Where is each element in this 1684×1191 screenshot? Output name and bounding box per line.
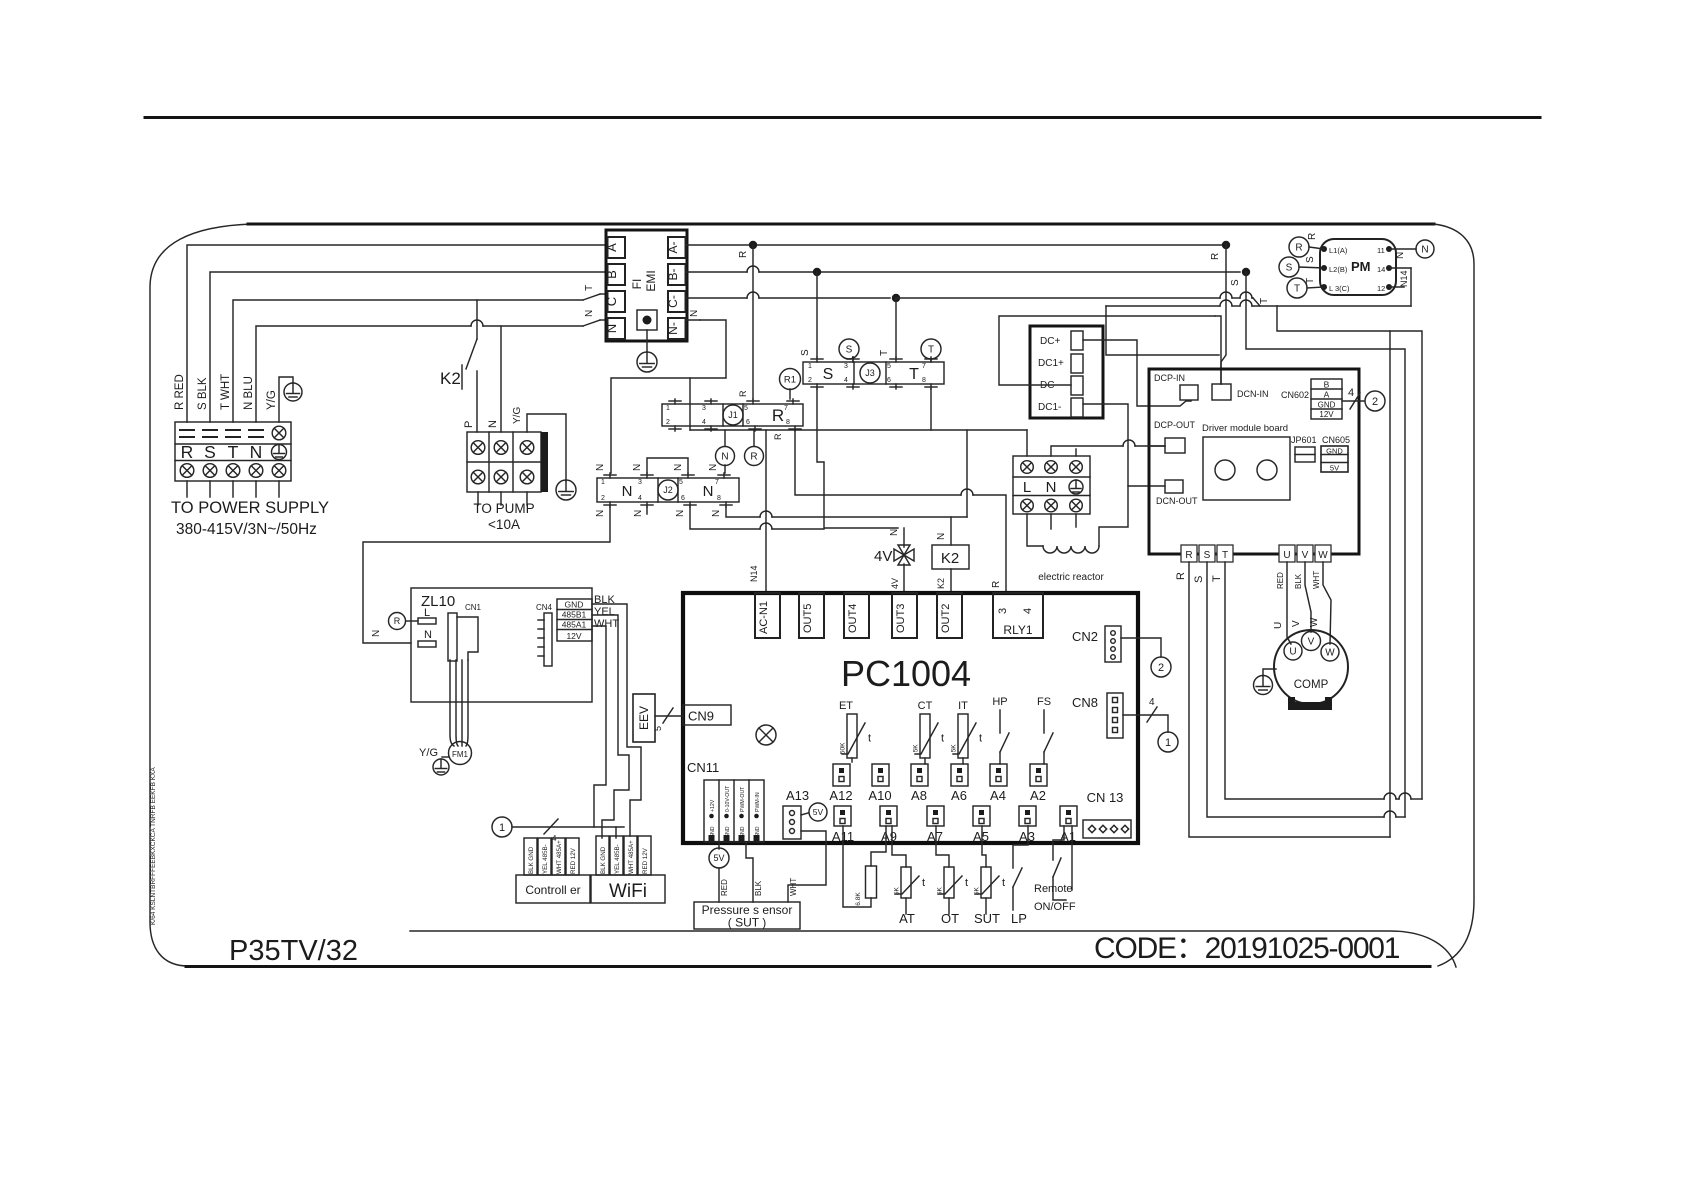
svg-text:2: 2	[1372, 396, 1378, 408]
svg-text:PM: PM	[1351, 259, 1371, 274]
wire S bus to ST pin1	[816, 272, 818, 357]
connector OUT5	[799, 593, 824, 638]
controller box	[516, 875, 590, 903]
svg-text:A7: A7	[927, 829, 943, 844]
svg-text:8: 8	[717, 495, 721, 502]
svg-text:T: T	[909, 366, 919, 383]
svg-text:GND: GND	[565, 600, 584, 610]
svg-text:Y/G: Y/G	[419, 747, 438, 759]
wire CN602 to node 2	[1342, 400, 1364, 402]
wire loop R from driver board	[1189, 562, 1390, 837]
connector A3	[1019, 806, 1036, 826]
svg-text:CN602: CN602	[1281, 390, 1309, 400]
svg-text:N: N	[604, 324, 619, 333]
svg-text:4: 4	[1348, 387, 1354, 399]
svg-text:BLK GND: BLK GND	[528, 846, 535, 874]
svg-text:K/64 KSLNTBRFFFEEBKXCKCA TNRFB: K/64 KSLNTBRFFFEEBKXCKCA TNRFB EEKFB KXA	[150, 767, 157, 925]
svg-text:1: 1	[808, 363, 812, 370]
svg-text:N: N	[711, 510, 722, 517]
svg-text:GND: GND	[1326, 447, 1343, 456]
svg-text:WHT: WHT	[1312, 571, 1321, 589]
svg-text:N: N	[708, 464, 719, 471]
connector A11	[834, 806, 851, 826]
svg-text:6: 6	[746, 419, 750, 426]
svg-text:N14: N14	[1399, 270, 1409, 287]
compressor COMP	[1274, 630, 1348, 704]
svg-text:R: R	[773, 433, 783, 440]
svg-text:1: 1	[601, 479, 605, 486]
wire loop T from driver board	[1225, 562, 1384, 799]
svg-text:S: S	[1286, 263, 1293, 274]
svg-text:A3: A3	[1019, 829, 1035, 844]
svg-text:<10A: <10A	[488, 517, 520, 532]
svg-text:WHT 485A+: WHT 485A+	[556, 840, 563, 874]
wire R vertical to DCN-IN	[1221, 245, 1226, 384]
svg-text:IT: IT	[958, 700, 968, 712]
svg-text:R: R	[738, 390, 748, 397]
wire PM 14 and 12 to N14 net	[1389, 267, 1411, 269]
wifi box	[591, 875, 665, 903]
bus wire S from EMI B-	[686, 271, 748, 273]
svg-text:CN605: CN605	[1322, 435, 1350, 445]
EMI ground terminal	[637, 310, 657, 330]
svg-text:A2: A2	[1030, 788, 1046, 803]
svg-text:FI: FI	[630, 279, 644, 290]
svg-text:EEV: EEV	[637, 706, 651, 730]
svg-text:OUT3: OUT3	[895, 604, 907, 633]
ground symbol pump	[527, 414, 566, 481]
node 5V below board	[718, 843, 720, 849]
relay block S T J3	[803, 362, 944, 384]
fan motor FM1	[449, 742, 472, 765]
wire DC+ to DCP-IN	[1083, 340, 1191, 406]
svg-text:S BLK: S BLK	[197, 377, 209, 410]
svg-text:P35TV/32: P35TV/32	[229, 935, 358, 967]
svg-text:N: N	[689, 310, 700, 317]
svg-text:CN1: CN1	[465, 603, 482, 612]
svg-text:HP: HP	[992, 696, 1007, 708]
node 2 circle right of CN2	[1151, 657, 1171, 677]
svg-text:CODE：20191025-0001: CODE：20191025-0001	[1094, 932, 1400, 965]
svg-text:L1(A): L1(A)	[1329, 246, 1348, 255]
svg-text:C-: C-	[666, 295, 680, 308]
svg-text:A5: A5	[973, 829, 989, 844]
fan motor ground	[442, 756, 449, 758]
compressor base	[1288, 697, 1332, 710]
svg-text:L 3(C): L 3(C)	[1329, 284, 1350, 293]
svg-text:K2: K2	[440, 369, 461, 388]
svg-text:PC1004: PC1004	[841, 653, 971, 694]
svg-text:A-: A-	[666, 241, 680, 253]
svg-text:DCN-IN: DCN-IN	[1237, 389, 1269, 399]
wire EMI N- to N relay pin1	[686, 319, 701, 321]
svg-text:N: N	[703, 483, 714, 500]
svg-text:14: 14	[1377, 265, 1385, 274]
svg-text:12V: 12V	[566, 631, 581, 641]
svg-text:AT: AT	[899, 911, 915, 926]
svg-text:T: T	[1294, 284, 1300, 295]
wire PM 11 to N node	[1389, 248, 1416, 250]
svg-text:WHT 485A+: WHT 485A+	[628, 840, 635, 874]
svg-text:5: 5	[679, 479, 683, 486]
svg-text:t: t	[922, 877, 925, 889]
svg-text:V: V	[1291, 620, 1302, 627]
terminal block L N	[1013, 456, 1090, 514]
svg-text:RLY1: RLY1	[1003, 623, 1032, 637]
expansion valve EEV	[633, 694, 655, 742]
svg-text:BLK GND: BLK GND	[600, 846, 607, 874]
svg-text:5K: 5K	[894, 887, 901, 896]
wire S vertical to right loop	[1246, 272, 1405, 817]
svg-text:R RED: R RED	[174, 374, 186, 410]
svg-text:V: V	[1308, 637, 1315, 648]
svg-text:7: 7	[922, 363, 926, 370]
svg-text:CN 13: CN 13	[1087, 790, 1124, 805]
svg-text:K2: K2	[941, 550, 959, 567]
wire T bus to ST pin5	[895, 298, 897, 357]
svg-text:RED: RED	[1276, 572, 1285, 589]
svg-text:t: t	[941, 732, 944, 744]
svg-text:3: 3	[638, 479, 642, 486]
svg-text:380-415V/3N~/50Hz: 380-415V/3N~/50Hz	[176, 521, 317, 538]
svg-text:JP601: JP601	[1291, 435, 1317, 445]
svg-text:2: 2	[601, 495, 605, 502]
hop of N wire under K2 wire	[471, 320, 483, 326]
wire BLK to pressure sensor	[746, 843, 753, 902]
svg-text:N: N	[584, 310, 595, 317]
svg-text:J3: J3	[865, 368, 875, 378]
wire LN block N top to DCP-OUT	[1051, 446, 1123, 456]
compressor ground	[1263, 669, 1276, 676]
svg-text:2: 2	[1158, 662, 1164, 674]
node S circle above ST pin3	[852, 357, 854, 359]
svg-text:PWM-OUT: PWM-OUT	[740, 786, 746, 812]
connector CN9	[683, 705, 731, 725]
svg-text:N: N	[936, 533, 947, 540]
controller interface pins	[524, 838, 579, 875]
svg-text:P: P	[463, 421, 475, 428]
svg-text:S: S	[1305, 256, 1316, 263]
svg-text:electric reactor: electric reactor	[1038, 572, 1104, 583]
svg-text:( SUT ): ( SUT )	[728, 916, 766, 930]
svg-text:TO POWER SUPPLY: TO POWER SUPPLY	[171, 499, 329, 517]
svg-text:5: 5	[887, 363, 891, 370]
main board PC1004 outline	[683, 593, 1138, 843]
svg-text:J2: J2	[663, 485, 673, 495]
svg-text:CN8: CN8	[1072, 695, 1098, 710]
svg-text:CT: CT	[918, 700, 933, 712]
wire mid bus to PM and right loop	[1106, 305, 1220, 307]
svg-text:Remote: Remote	[1034, 883, 1073, 895]
relay connector RLY1	[993, 593, 1043, 638]
svg-text:12V: 12V	[1319, 410, 1334, 419]
svg-text:R: R	[181, 442, 194, 462]
svg-text:N: N	[595, 464, 606, 471]
svg-text:AC-N1: AC-N1	[758, 601, 770, 634]
connector OUT3	[892, 593, 917, 638]
power module PM	[1320, 239, 1396, 295]
svg-text:PWM-IN: PWM-IN	[755, 792, 761, 812]
svg-text:6.8K: 6.8K	[855, 892, 862, 906]
svg-text:485A1: 485A1	[562, 620, 587, 630]
svg-text:WHT: WHT	[789, 878, 798, 896]
connector A2	[1030, 764, 1047, 786]
svg-text:U: U	[1283, 550, 1290, 561]
svg-text:2: 2	[666, 419, 670, 426]
svg-text:A: A	[1324, 390, 1330, 400]
svg-text:A9: A9	[881, 829, 897, 844]
svg-text:N: N	[889, 529, 900, 536]
connector A1	[1060, 806, 1077, 826]
svg-text:S: S	[1230, 279, 1241, 286]
svg-text:T: T	[1305, 278, 1316, 284]
bus wire R from EMI A-	[686, 244, 1227, 246]
svg-text:A1: A1	[1060, 829, 1076, 844]
svg-text:T: T	[1259, 298, 1270, 304]
switch K2 to pump	[476, 300, 478, 339]
node 1 circle comm bus	[492, 817, 512, 837]
svg-text:5K: 5K	[974, 887, 981, 896]
svg-text:7: 7	[715, 479, 719, 486]
svg-text:5K: 5K	[951, 744, 958, 753]
svg-text:DCP-IN: DCP-IN	[1154, 373, 1185, 383]
wire T power to EMI C	[233, 300, 583, 422]
node 2 circle	[1365, 391, 1385, 411]
svg-text:t: t	[965, 877, 968, 889]
wire S power to EMI B	[210, 272, 606, 422]
svg-text:YEL 485B-: YEL 485B-	[614, 844, 621, 874]
wire A13 to pressure sensor WHT	[788, 831, 826, 902]
wire N power to EMI N	[256, 326, 471, 422]
svg-text:N: N	[250, 442, 263, 462]
svg-text:A12: A12	[829, 788, 852, 803]
svg-text:T: T	[1211, 575, 1223, 582]
svg-text:N: N	[371, 630, 382, 637]
svg-text:4: 4	[1022, 608, 1034, 614]
wire L N block L top	[1026, 430, 1028, 456]
svg-text:B-: B-	[666, 268, 680, 280]
driver module board outline	[1149, 369, 1359, 554]
connector A6	[951, 764, 968, 786]
comm wire WHT staircase	[592, 626, 606, 827]
svg-text:1: 1	[666, 405, 670, 412]
svg-text:OUT2: OUT2	[940, 604, 952, 633]
page top rule	[145, 116, 1540, 119]
ground symbol PE near power block	[279, 377, 293, 422]
svg-text:N: N	[673, 464, 684, 471]
svg-text:5K: 5K	[913, 744, 920, 753]
svg-text:EMI: EMI	[644, 270, 658, 291]
svg-text:485B1: 485B1	[562, 610, 587, 620]
node R circle to PM L1	[1289, 237, 1309, 257]
wire loop vertical right inner	[1389, 331, 1391, 837]
svg-text:BLK: BLK	[1294, 573, 1303, 589]
wire loop S from driver board	[1207, 562, 1384, 817]
svg-text:3: 3	[702, 405, 706, 412]
svg-text:11: 11	[1377, 246, 1385, 255]
svg-text:W: W	[1318, 550, 1328, 561]
svg-text:8: 8	[786, 419, 790, 426]
wire DC- to DCN-IN	[999, 316, 1106, 385]
wire EEV to CN9 with 5 marker	[655, 715, 683, 717]
wire R bus to relay R pin5	[752, 245, 754, 399]
node N circle above N relay pin7	[724, 430, 726, 446]
connector A7	[927, 806, 944, 826]
svg-text:ON/OFF: ON/OFF	[1034, 901, 1076, 913]
relay block N J2	[597, 478, 739, 502]
node R below relay R pin6	[753, 431, 755, 446]
svg-text:N: N	[1421, 245, 1428, 256]
svg-text:R: R	[1185, 550, 1192, 561]
wire N relay pin2 to ZL10	[363, 507, 610, 643]
svg-text:OUT5: OUT5	[802, 604, 814, 633]
svg-text:A10: A10	[868, 788, 891, 803]
connector DCN-IN	[1212, 384, 1231, 400]
svg-text:1: 1	[499, 822, 505, 834]
svg-text:RED 12V: RED 12V	[570, 847, 577, 874]
svg-text:N: N	[675, 510, 686, 517]
wire DC1- to DCN-OUT	[1083, 404, 1165, 486]
svg-text:N: N	[595, 510, 606, 517]
svg-text:S: S	[1193, 576, 1205, 583]
svg-text:7: 7	[784, 405, 788, 412]
board ZL10 outline	[411, 588, 592, 702]
svg-text:R: R	[1210, 253, 1221, 260]
connector OUT4	[844, 593, 869, 638]
svg-text:CN11: CN11	[687, 760, 719, 775]
relay block R J1	[662, 404, 803, 426]
svg-text:L: L	[1023, 479, 1031, 496]
comm wire YEL staircase	[592, 615, 629, 838]
driver board terminals R S T	[1181, 545, 1197, 562]
svg-text:0-10V-OUT: 0-10V-OUT	[725, 785, 731, 812]
svg-text:A13: A13	[786, 788, 809, 803]
connector A5	[973, 806, 990, 826]
svg-text:T: T	[1222, 550, 1228, 561]
svg-text:YEL: YEL	[594, 606, 615, 618]
resistor 6.8K	[843, 826, 871, 907]
svg-text:R: R	[772, 406, 784, 425]
connector A12	[833, 764, 850, 786]
svg-text:N BLU: N BLU	[243, 376, 255, 410]
svg-text:S: S	[800, 349, 811, 356]
svg-text:A: A	[604, 243, 619, 252]
svg-text:A8: A8	[911, 788, 927, 803]
svg-text:OT: OT	[941, 911, 959, 926]
svg-text:T: T	[584, 285, 595, 291]
svg-text:6: 6	[681, 495, 685, 502]
relay coil K2	[932, 545, 969, 569]
svg-text:CN2: CN2	[1072, 629, 1098, 644]
wire ST pin8 to N rail	[930, 389, 932, 430]
svg-text:W: W	[1325, 648, 1335, 659]
svg-text:5V: 5V	[713, 853, 724, 863]
svg-text:L: L	[424, 607, 430, 619]
node 5V at A13	[801, 813, 808, 815]
comm wire BLK staircase	[592, 604, 641, 836]
terminal block TO PUMP	[467, 432, 541, 492]
svg-text:RED: RED	[720, 879, 729, 896]
svg-text:3: 3	[844, 363, 848, 370]
lamp symbol on board	[756, 725, 776, 745]
svg-text:Driver module board: Driver module board	[1202, 423, 1288, 434]
svg-text:K2: K2	[936, 578, 946, 589]
thermistor SUT	[976, 867, 999, 898]
svg-text:ET: ET	[839, 700, 853, 712]
svg-text:T: T	[228, 442, 239, 462]
svg-text:C: C	[604, 297, 619, 306]
pressure sensor box	[694, 902, 800, 929]
svg-text:R: R	[738, 251, 749, 258]
svg-text:4: 4	[638, 495, 642, 502]
node T circle to PM L3	[1287, 278, 1307, 298]
comm bus wire with 4 marker	[512, 826, 624, 828]
svg-text:t: t	[979, 732, 982, 744]
wire relay R pin8 to RLY1	[795, 431, 961, 495]
svg-text:R1: R1	[784, 374, 796, 385]
svg-text:R: R	[1175, 572, 1187, 580]
svg-text:N: N	[424, 629, 432, 641]
pressure switch LP	[1013, 826, 1028, 868]
svg-text:Y/G: Y/G	[266, 390, 278, 410]
footer separator line	[410, 931, 1456, 967]
svg-text:R: R	[1307, 233, 1318, 240]
node R circle at ZL10	[389, 613, 406, 630]
bus wire T from EMI C-	[686, 297, 748, 299]
terminal block X1 power supply	[175, 422, 291, 481]
wire pump N tap	[500, 326, 502, 432]
svg-text:1: 1	[1165, 737, 1171, 749]
svg-text:A4: A4	[990, 788, 1006, 803]
connector A10	[872, 764, 889, 786]
svg-text:DC1-: DC1-	[1038, 402, 1061, 413]
node S circle to PM L2	[1279, 257, 1299, 277]
svg-text:12: 12	[1377, 284, 1385, 293]
svg-text:S: S	[846, 345, 853, 356]
svg-text:A6: A6	[951, 788, 967, 803]
svg-text:DCN-OUT: DCN-OUT	[1156, 496, 1198, 506]
svg-text:R: R	[394, 616, 401, 626]
svg-text:OUT4: OUT4	[847, 604, 859, 633]
DC terminal block	[1030, 326, 1103, 418]
electric reactor	[1027, 514, 1043, 546]
svg-text:U: U	[1289, 647, 1296, 658]
svg-text:4: 4	[844, 377, 848, 384]
svg-text:WiFi: WiFi	[609, 881, 647, 902]
wire ST pin2 to 4V valve	[817, 389, 898, 528]
svg-text:5K: 5K	[937, 887, 944, 896]
svg-text:N: N	[622, 483, 633, 500]
svg-text:S: S	[204, 442, 216, 462]
svg-text:S: S	[823, 366, 834, 383]
driver board inner module	[1203, 437, 1290, 500]
connector A4	[990, 764, 1007, 786]
wire CN2 to node 2	[1121, 638, 1161, 657]
svg-text:LP: LP	[1011, 911, 1027, 926]
svg-text:FM1: FM1	[452, 750, 469, 759]
svg-text:4: 4	[1149, 697, 1155, 708]
svg-text:N: N	[1395, 252, 1406, 259]
outer frame rounded border	[150, 224, 252, 966]
svg-text:T: T	[928, 345, 934, 356]
svg-text:6: 6	[887, 377, 891, 384]
svg-text:5V: 5V	[1330, 464, 1339, 473]
stub N relay pin4	[646, 507, 648, 514]
svg-text:N-: N-	[666, 322, 680, 335]
svg-text:V: V	[1302, 550, 1309, 561]
svg-text:Controll er: Controll er	[525, 883, 580, 897]
stub LN ground top	[1075, 449, 1077, 456]
